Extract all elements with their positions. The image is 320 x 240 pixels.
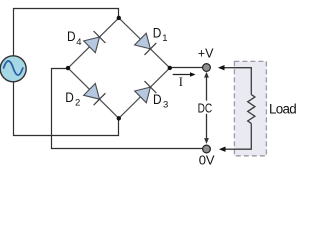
wire: bridge arm bottom-right (through D3) (119, 68, 170, 118)
svg-text:D: D (153, 91, 162, 107)
diode D3 (135, 81, 157, 103)
DC output double-headed arrow (204, 72, 209, 144)
svg-text:I: I (179, 75, 183, 89)
wire: AC source bottom to bridge bottom node (14, 82, 119, 136)
svg-text:DC: DC (198, 100, 213, 115)
AC source (sine-wave generator) (0, 56, 26, 82)
svg-text:3: 3 (163, 100, 168, 111)
diode D2 (84, 84, 106, 106)
node +V terminal (203, 64, 211, 72)
node: bridge bottom junction (117, 116, 121, 120)
wire: bridge arm left-top (through D4) (68, 18, 119, 68)
diode D1 (135, 33, 157, 55)
wire: bridge arm left-bottom (through D2) (68, 68, 119, 118)
wire: bridge arm top-right (through D1) (119, 18, 170, 68)
node: bridge top junction (117, 16, 121, 20)
svg-text:D: D (65, 89, 74, 105)
current arrow I (173, 72, 196, 77)
wire: bridge right node to +V terminal (170, 67, 203, 69)
wire: bridge left node to 0V rail (52, 69, 203, 149)
load box (dashed enclosure) (234, 61, 266, 155)
node: bridge left junction (66, 66, 70, 70)
resistor (Load) (248, 95, 255, 124)
node 0V terminal (203, 145, 211, 153)
svg-text:D: D (153, 24, 162, 40)
node: bridge right junction (168, 66, 172, 70)
wire: AC source top to bridge top node (14, 9, 119, 56)
diode D4 (84, 31, 106, 53)
svg-text:D: D (67, 28, 76, 44)
svg-text:0V: 0V (199, 153, 215, 168)
svg-text:4: 4 (76, 37, 81, 48)
svg-text:+V: +V (198, 47, 214, 61)
wire: load bottom lead with arrow into 0V (219, 123, 251, 151)
wire: load top lead with arrow into +V (218, 65, 251, 95)
svg-text:1: 1 (162, 33, 167, 44)
svg-text:2: 2 (75, 98, 80, 109)
svg-text:Load: Load (269, 101, 296, 116)
